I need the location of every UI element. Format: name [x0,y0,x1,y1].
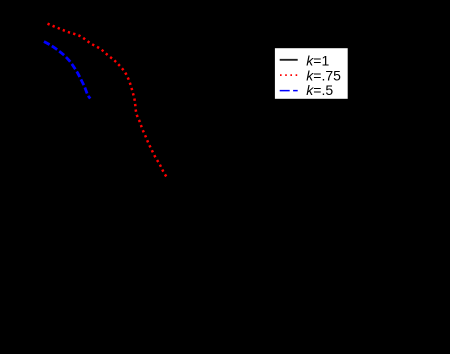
curve k=.5 (blue dashed) [44,42,90,99]
legend box [274,48,348,100]
svg-text:k=.5: k=.5 [306,82,333,98]
legend sample dots k=.75 [280,74,298,76]
legend sample line k=1 [280,59,298,61]
legend sample dashes k=.5 [280,90,298,92]
svg-text:k=.75: k=.75 [306,67,341,83]
curve k=.75 (red dotted) [48,24,167,178]
svg-text:k=1: k=1 [306,53,329,69]
